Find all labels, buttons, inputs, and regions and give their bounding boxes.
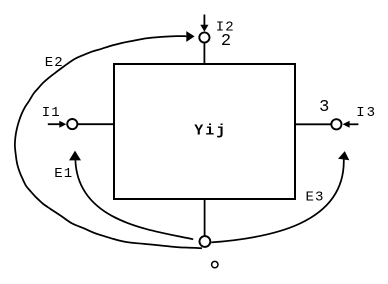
wire box right to node 3 bbox=[295, 123, 332, 125]
arrowhead E2 bbox=[186, 31, 194, 42]
svg-text:I3: I3 bbox=[356, 105, 377, 121]
svg-text:E2: E2 bbox=[45, 55, 64, 71]
current arrow I1 line bbox=[48, 123, 60, 125]
svg-text:E3: E3 bbox=[306, 190, 325, 206]
voltage arc E2 bbox=[15, 36, 202, 248]
two-port box Yij bbox=[114, 64, 295, 199]
node 1 terminal circle bbox=[67, 119, 77, 129]
voltage arc E1 bbox=[75, 160, 193, 239]
small o reference mark bbox=[212, 261, 218, 267]
wire port 1 to box bbox=[78, 123, 114, 125]
current arrow I1 head bbox=[59, 121, 66, 128]
svg-text:2: 2 bbox=[221, 32, 231, 51]
svg-text:E1: E1 bbox=[54, 166, 73, 182]
svg-text:I1: I1 bbox=[42, 105, 61, 121]
current arrow I3 line bbox=[349, 123, 358, 125]
wire node 2 to box top bbox=[203, 43, 205, 64]
svg-text:3: 3 bbox=[319, 98, 329, 117]
current arrow I2 head bbox=[200, 25, 208, 32]
current arrow I2 line bbox=[203, 15, 205, 27]
wire box bottom to node o bbox=[204, 199, 206, 236]
node o common terminal circle bbox=[200, 236, 211, 247]
svg-text:Yij: Yij bbox=[194, 122, 227, 139]
node 3 terminal circle bbox=[331, 119, 341, 129]
voltage arc E3 bbox=[211, 160, 344, 243]
arrowhead E1 bbox=[69, 151, 81, 161]
node 2 terminal circle bbox=[199, 32, 209, 42]
current arrow I3 head bbox=[343, 121, 350, 128]
arrowhead E3 bbox=[338, 151, 349, 160]
